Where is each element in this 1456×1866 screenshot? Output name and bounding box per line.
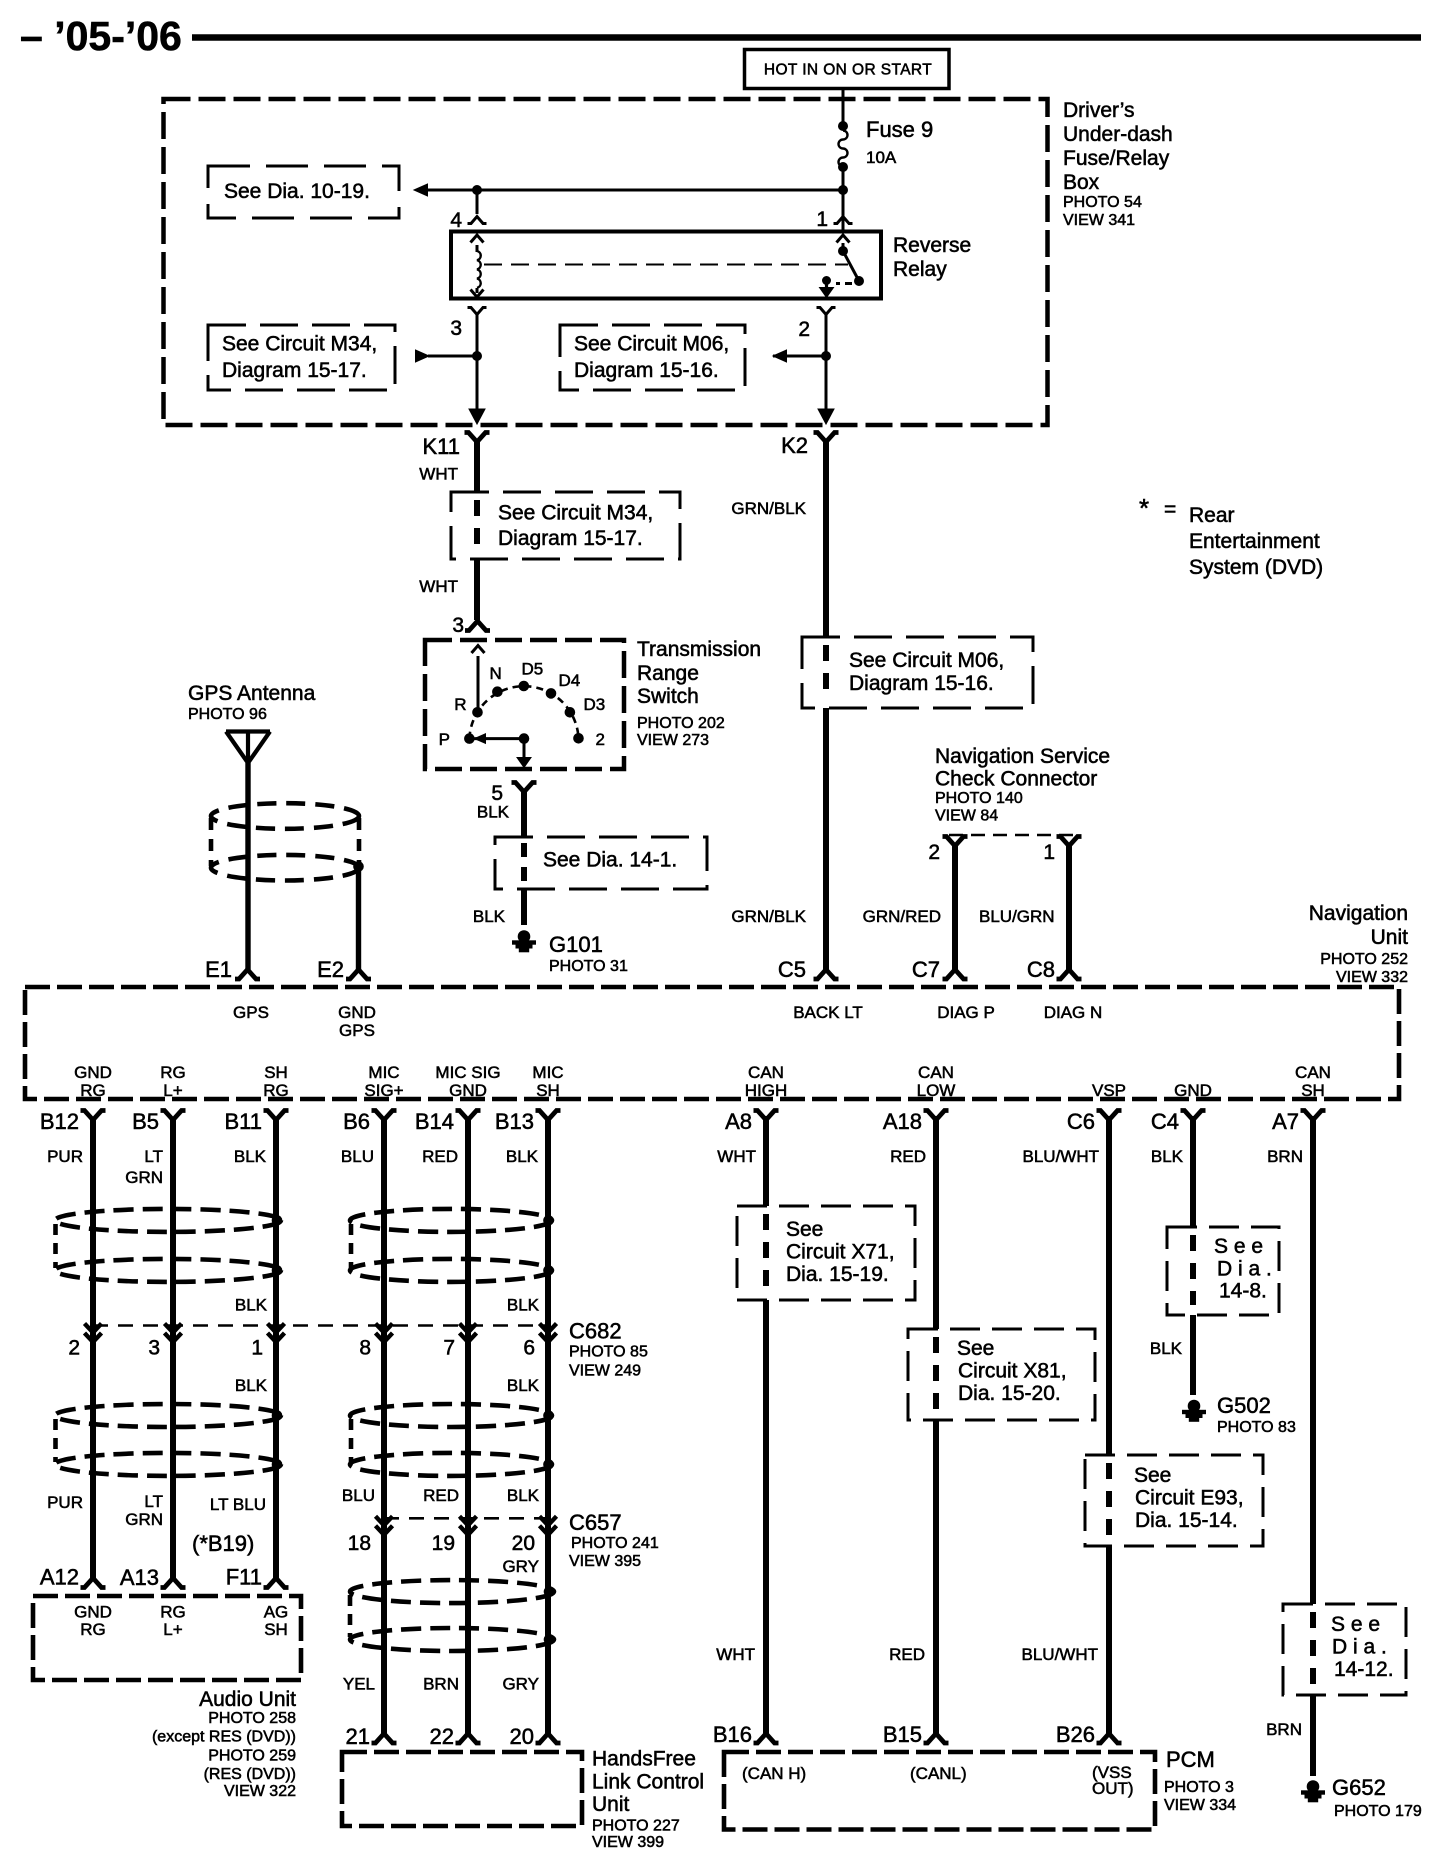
svg-text:C657: C657 bbox=[569, 1510, 622, 1535]
svg-text:GND: GND bbox=[338, 1003, 376, 1022]
connector F11 bbox=[264, 1578, 289, 1588]
svg-text:20: 20 bbox=[512, 1532, 535, 1555]
svg-text:Circuit E93,: Circuit E93, bbox=[1135, 1487, 1244, 1510]
wire dashed through callout bbox=[521, 843, 527, 857]
svg-text:BRN: BRN bbox=[1266, 1720, 1302, 1739]
svg-text:RG: RG bbox=[160, 1603, 186, 1622]
wire C6 BLU/WHT lower bbox=[1106, 1546, 1112, 1734]
svg-text:C4: C4 bbox=[1151, 1109, 1179, 1134]
svg-text:LOW: LOW bbox=[917, 1081, 956, 1100]
svg-text:B5: B5 bbox=[132, 1109, 159, 1134]
wire antenna to E1 bbox=[245, 763, 250, 970]
svg-text:Audio Unit: Audio Unit bbox=[199, 1688, 296, 1711]
svg-text:GRY: GRY bbox=[502, 1557, 539, 1576]
wire B5 LT GRN bbox=[170, 1119, 176, 1578]
connector C682 pin 3 bbox=[165, 1324, 182, 1343]
svg-text:VIEW 322: VIEW 322 bbox=[224, 1783, 296, 1800]
svg-text:F11: F11 bbox=[226, 1565, 262, 1590]
wire branch to See Dia. 10-19 bbox=[428, 189, 843, 192]
svg-text:DIAG P: DIAG P bbox=[937, 1003, 995, 1022]
node shield2 to B13 lower bbox=[544, 1460, 554, 1470]
svg-text:B11: B11 bbox=[224, 1109, 262, 1134]
svg-text:Under-dash: Under-dash bbox=[1063, 123, 1173, 146]
svg-text:VIEW 332: VIEW 332 bbox=[1336, 969, 1408, 986]
node M06 tap bbox=[822, 352, 831, 361]
contact N bbox=[493, 687, 503, 697]
wire dashed through callout bbox=[474, 500, 480, 516]
GPS antenna symbol bbox=[226, 729, 270, 733]
wire B14 RED bbox=[465, 1119, 471, 1734]
connector C682 pin 8 bbox=[376, 1324, 393, 1343]
svg-text:GRN: GRN bbox=[125, 1510, 163, 1529]
svg-text:14-8.: 14-8. bbox=[1219, 1280, 1267, 1303]
svg-text:SH: SH bbox=[264, 1620, 288, 1639]
svg-text:RG: RG bbox=[160, 1063, 186, 1082]
svg-text:PUR: PUR bbox=[47, 1147, 83, 1166]
svg-text:(CANL): (CANL) bbox=[910, 1764, 967, 1783]
svg-text:– ’05-’06: – ’05-’06 bbox=[20, 13, 182, 59]
svg-text:PHOTO 54: PHOTO 54 bbox=[1063, 194, 1142, 211]
svg-text:A12: A12 bbox=[40, 1565, 79, 1590]
svg-text:VIEW 249: VIEW 249 bbox=[569, 1363, 641, 1380]
node fuse/branch junction bbox=[839, 186, 848, 195]
pin 4 connector bbox=[468, 217, 487, 224]
svg-text:MIC: MIC bbox=[368, 1063, 399, 1082]
connector B13 bbox=[536, 1111, 561, 1121]
svg-text:Transmission: Transmission bbox=[637, 638, 761, 661]
selector arc bbox=[469, 686, 578, 738]
svg-text:2: 2 bbox=[596, 730, 605, 749]
callout See Dia. 14-12 bbox=[1283, 1604, 1406, 1695]
svg-text:A18: A18 bbox=[883, 1109, 922, 1134]
svg-text:Navigation: Navigation bbox=[1309, 902, 1408, 925]
svg-text:1: 1 bbox=[816, 208, 828, 231]
svg-text:BLK: BLK bbox=[507, 1376, 540, 1395]
svg-text:BLK: BLK bbox=[1150, 1339, 1183, 1358]
svg-text:3: 3 bbox=[452, 614, 464, 637]
svg-text:7: 7 bbox=[443, 1337, 455, 1360]
svg-text:L+: L+ bbox=[163, 1620, 182, 1639]
svg-text:21: 21 bbox=[346, 1724, 370, 1749]
callout See Circuit M06 upper bbox=[560, 325, 745, 390]
connector C657 pin 20 bbox=[540, 1516, 557, 1535]
svg-text:PCM: PCM bbox=[1166, 1747, 1215, 1772]
callout See Dia. 14-1 bbox=[495, 837, 707, 889]
svg-text:GRN: GRN bbox=[125, 1168, 163, 1187]
svg-text:(CAN H): (CAN H) bbox=[742, 1764, 806, 1783]
shield around RG wires (lower) bbox=[55, 1404, 281, 1427]
wire 5 BLK upper bbox=[521, 791, 527, 837]
wire K11 WHT lower bbox=[474, 559, 480, 620]
callout See Circuit E93 bbox=[1085, 1455, 1263, 1546]
svg-text:10A: 10A bbox=[866, 148, 897, 167]
node shield2 to B11 lower bbox=[272, 1460, 282, 1470]
arrow wire exits fuse box (K2) bbox=[818, 409, 834, 424]
svg-text:PHOTO 140: PHOTO 140 bbox=[935, 790, 1023, 807]
callout See Dia. 14-8 bbox=[1167, 1227, 1279, 1315]
svg-text:BLU/GRN: BLU/GRN bbox=[979, 907, 1055, 926]
svg-text:Unit: Unit bbox=[1371, 926, 1409, 949]
svg-text:Reverse: Reverse bbox=[893, 234, 971, 257]
connector A13 bbox=[161, 1578, 186, 1588]
svg-text:Range: Range bbox=[637, 662, 699, 685]
svg-text:GRY: GRY bbox=[502, 1675, 539, 1694]
svg-text:PHOTO 96: PHOTO 96 bbox=[188, 706, 267, 723]
svg-text:BLU: BLU bbox=[341, 1147, 374, 1166]
wiper arrow to pin 3 bbox=[472, 646, 485, 654]
svg-text:CAN: CAN bbox=[748, 1063, 784, 1082]
connector E2 bbox=[346, 970, 371, 980]
connector B11 bbox=[264, 1111, 289, 1121]
svg-text:Circuit X71,: Circuit X71, bbox=[786, 1241, 895, 1264]
svg-text:OUT): OUT) bbox=[1092, 1779, 1134, 1798]
shield around GPS coax bbox=[211, 803, 359, 829]
svg-text:RG: RG bbox=[80, 1081, 106, 1100]
wire fuse to relay pin 1 bbox=[842, 171, 845, 231]
wire B11 BLK shield bbox=[273, 1119, 279, 1578]
svg-text:HOT IN ON OR START: HOT IN ON OR START bbox=[764, 62, 932, 79]
svg-text:C8: C8 bbox=[1027, 957, 1055, 982]
connector C682 pin 2 bbox=[85, 1324, 102, 1343]
svg-text:GPS Antenna: GPS Antenna bbox=[188, 682, 316, 705]
connector B12 bbox=[81, 1111, 106, 1121]
svg-text:HIGH: HIGH bbox=[745, 1081, 788, 1100]
wire A7 BRN lower bbox=[1310, 1695, 1316, 1776]
svg-text:BLU/WHT: BLU/WHT bbox=[1023, 1147, 1100, 1166]
connector B14 bbox=[456, 1111, 481, 1121]
pin 1 connector bbox=[834, 217, 853, 224]
svg-text:BLK: BLK bbox=[235, 1376, 268, 1395]
svg-text:Fuse/Relay: Fuse/Relay bbox=[1063, 147, 1170, 170]
svg-text:See Circuit M34,: See Circuit M34, bbox=[498, 502, 653, 525]
svg-text:PHOTO 3: PHOTO 3 bbox=[1164, 1779, 1234, 1796]
svg-text:S e e: S e e bbox=[1331, 1613, 1380, 1636]
svg-text:RED: RED bbox=[890, 1147, 926, 1166]
wire BLU/GRN pin1 to C8 bbox=[1066, 845, 1072, 970]
svg-text:19: 19 bbox=[432, 1532, 455, 1555]
svg-text:VIEW 341: VIEW 341 bbox=[1063, 212, 1135, 229]
svg-text:B12: B12 bbox=[40, 1109, 79, 1134]
svg-text:BLK: BLK bbox=[1151, 1147, 1184, 1166]
svg-text:*: * bbox=[1139, 493, 1149, 523]
svg-text:A8: A8 bbox=[725, 1109, 752, 1134]
svg-text:See Dia. 14-1.: See Dia. 14-1. bbox=[543, 849, 677, 872]
callout See Circuit X81 bbox=[908, 1329, 1095, 1420]
svg-text:BLK: BLK bbox=[477, 803, 510, 822]
svg-text:GPS: GPS bbox=[339, 1021, 375, 1040]
svg-text:Circuit X81,: Circuit X81, bbox=[958, 1360, 1067, 1383]
node M34 tap bbox=[473, 352, 482, 361]
svg-text:GND: GND bbox=[74, 1603, 112, 1622]
contact R bbox=[473, 708, 483, 718]
svg-text:See: See bbox=[786, 1218, 823, 1241]
svg-text:Dia. 15-14.: Dia. 15-14. bbox=[1135, 1509, 1238, 1532]
svg-text:Link Control: Link Control bbox=[592, 1771, 704, 1794]
svg-text:B14: B14 bbox=[415, 1109, 454, 1134]
svg-text:4: 4 bbox=[450, 209, 462, 232]
connector A18 bbox=[924, 1111, 949, 1121]
wire dashed through 14-8 callout bbox=[1190, 1235, 1196, 1251]
svg-text:MIC: MIC bbox=[532, 1063, 563, 1082]
svg-text:E2: E2 bbox=[317, 957, 344, 982]
relay box bbox=[451, 232, 881, 299]
wire dashed through E93 callout bbox=[1106, 1463, 1112, 1479]
svg-text:1: 1 bbox=[1043, 841, 1055, 864]
connector B16 bbox=[754, 1734, 779, 1744]
transmission range switch box bbox=[425, 640, 624, 769]
svg-text:Rear: Rear bbox=[1189, 504, 1235, 527]
svg-text:GRN/RED: GRN/RED bbox=[863, 907, 941, 926]
svg-text:VIEW 395: VIEW 395 bbox=[569, 1553, 641, 1570]
service connector link bbox=[949, 834, 1075, 837]
ground G502 bbox=[1183, 1400, 1206, 1421]
svg-text:B13: B13 bbox=[495, 1109, 534, 1134]
svg-text:20: 20 bbox=[510, 1724, 534, 1749]
svg-text:WHT: WHT bbox=[717, 1147, 756, 1166]
wire A18 RED upper bbox=[933, 1116, 939, 1329]
svg-text:See: See bbox=[1134, 1464, 1171, 1487]
svg-text:B16: B16 bbox=[713, 1722, 752, 1747]
svg-text:Dia. 15-19.: Dia. 15-19. bbox=[786, 1263, 889, 1286]
wire pin 2 down bbox=[825, 315, 828, 412]
svg-text:Navigation Service: Navigation Service bbox=[935, 745, 1110, 768]
fuse F9 10A bbox=[839, 122, 848, 131]
svg-text:GND: GND bbox=[1174, 1081, 1212, 1100]
connector C4 bbox=[1181, 1111, 1206, 1121]
connector C657 pin 19 bbox=[460, 1516, 477, 1535]
svg-text:CAN: CAN bbox=[1295, 1063, 1331, 1082]
svg-text:Switch: Switch bbox=[637, 685, 699, 708]
svg-text:RG: RG bbox=[263, 1081, 289, 1100]
svg-text:18: 18 bbox=[348, 1532, 371, 1555]
svg-text:A7: A7 bbox=[1272, 1109, 1299, 1134]
svg-text:BRN: BRN bbox=[1267, 1147, 1303, 1166]
svg-text:GRN/BLK: GRN/BLK bbox=[731, 907, 806, 926]
wire A8 WHT upper bbox=[763, 1116, 769, 1206]
connector C657 link bbox=[384, 1517, 548, 1520]
svg-text:SH: SH bbox=[1301, 1081, 1325, 1100]
svg-text:C5: C5 bbox=[778, 957, 806, 982]
contact D4 bbox=[546, 689, 556, 699]
title rule bbox=[192, 34, 1421, 41]
svg-text:See: See bbox=[957, 1337, 994, 1360]
pin 3 connector bbox=[468, 308, 487, 315]
wire branch down to relay pin 4 bbox=[476, 190, 479, 214]
wire GRN/RED pin2 to C7 bbox=[952, 845, 958, 970]
navigation unit box (dashed) bbox=[25, 987, 1399, 1099]
svg-text:3: 3 bbox=[450, 317, 462, 340]
connector handsfree pin 22 bbox=[456, 1734, 481, 1744]
svg-text:GRN/BLK: GRN/BLK bbox=[731, 499, 806, 518]
wire B13 BLK shield bbox=[545, 1119, 551, 1734]
ground G101 bbox=[513, 931, 536, 952]
svg-text:22: 22 bbox=[430, 1724, 454, 1749]
wire 5 BLK lower bbox=[521, 889, 527, 925]
contact 2 bbox=[574, 734, 584, 744]
wire HOT to fuse bbox=[842, 89, 845, 123]
node shield3 lower bbox=[544, 1635, 554, 1645]
svg-text:(except RES (DVD)): (except RES (DVD)) bbox=[152, 1729, 296, 1746]
connector handsfree pin 21 bbox=[372, 1734, 397, 1744]
svg-text:VIEW 399: VIEW 399 bbox=[592, 1834, 664, 1851]
svg-text:D i a .: D i a . bbox=[1332, 1636, 1387, 1659]
node shield to B13 upper bbox=[544, 1216, 554, 1226]
svg-text:C682: C682 bbox=[569, 1319, 622, 1344]
svg-text:VSP: VSP bbox=[1092, 1081, 1126, 1100]
svg-text:BLU: BLU bbox=[342, 1486, 375, 1505]
svg-text:D5: D5 bbox=[522, 660, 544, 679]
svg-text:SH: SH bbox=[264, 1063, 288, 1082]
arrow wire exits fuse box (K11) bbox=[469, 409, 485, 424]
wire A8 WHT lower bbox=[763, 1300, 769, 1734]
relay internal dashed link bbox=[484, 264, 848, 266]
svg-text:BLK: BLK bbox=[473, 907, 506, 926]
svg-text:RED: RED bbox=[889, 1645, 925, 1664]
contact P bbox=[465, 734, 475, 744]
svg-text:C7: C7 bbox=[912, 957, 940, 982]
svg-text:D4: D4 bbox=[559, 671, 581, 690]
wire shield drain to E2 bbox=[356, 867, 361, 970]
arrow M34 to wire bbox=[416, 350, 430, 362]
svg-text:DIAG N: DIAG N bbox=[1044, 1003, 1103, 1022]
svg-text:PHOTO 258: PHOTO 258 bbox=[208, 1710, 296, 1727]
wire A18 RED lower bbox=[933, 1420, 939, 1734]
svg-text:WHT: WHT bbox=[716, 1645, 755, 1664]
svg-text:PHOTO 202: PHOTO 202 bbox=[637, 715, 725, 732]
connector A7 bbox=[1301, 1111, 1326, 1121]
power tag HOT IN ON OR START bbox=[745, 50, 950, 89]
svg-text:PHOTO 241: PHOTO 241 bbox=[571, 1535, 659, 1552]
svg-text:YEL: YEL bbox=[343, 1675, 375, 1694]
svg-text:SH: SH bbox=[536, 1081, 560, 1100]
svg-text:BLK: BLK bbox=[506, 1147, 539, 1166]
svg-text:G502: G502 bbox=[1217, 1393, 1271, 1418]
svg-text:LT: LT bbox=[144, 1147, 163, 1166]
shield around RG wires (upper) bbox=[55, 1209, 281, 1232]
connector C8 bbox=[1057, 970, 1082, 980]
svg-text:RED: RED bbox=[422, 1147, 458, 1166]
svg-text:MIC SIG: MIC SIG bbox=[435, 1063, 500, 1082]
svg-text:LT BLU: LT BLU bbox=[210, 1495, 266, 1514]
connector C7 bbox=[943, 970, 968, 980]
svg-text:N: N bbox=[490, 664, 502, 683]
svg-text:System (DVD): System (DVD) bbox=[1189, 556, 1323, 579]
ground G652 bbox=[1302, 1781, 1325, 1802]
arrow M06 to wire bbox=[773, 350, 787, 362]
svg-text:Diagram 15-16.: Diagram 15-16. bbox=[849, 672, 994, 695]
fuse/relay box (dashed) bbox=[164, 99, 1048, 425]
wire dashed through X81 callout bbox=[933, 1337, 939, 1353]
svg-text:PHOTO 31: PHOTO 31 bbox=[549, 958, 628, 975]
svg-text:PHOTO 252: PHOTO 252 bbox=[1320, 951, 1408, 968]
connector B5 bbox=[161, 1111, 186, 1121]
node shield to B11 lower bbox=[272, 1266, 282, 1276]
relay switch (pins 1-2) bbox=[837, 235, 850, 243]
svg-text:R: R bbox=[454, 695, 466, 714]
svg-text:E1: E1 bbox=[205, 957, 232, 982]
svg-text:B15: B15 bbox=[883, 1722, 922, 1747]
node shield drain bbox=[354, 862, 364, 872]
handsfree link control unit box (dashed) bbox=[342, 1752, 582, 1826]
pin 1 connector bbox=[1057, 837, 1082, 847]
wire B6 BLU bbox=[381, 1119, 387, 1734]
shield around handsfree wires bbox=[350, 1580, 554, 1603]
svg-text:1: 1 bbox=[251, 1337, 263, 1360]
svg-text:2: 2 bbox=[798, 318, 810, 341]
wire dashed through X71 callout bbox=[763, 1214, 769, 1230]
svg-text:Entertainment: Entertainment bbox=[1189, 530, 1320, 553]
connector K2 bbox=[814, 433, 839, 443]
svg-text:VIEW 273: VIEW 273 bbox=[637, 732, 709, 749]
svg-text:PHOTO 179: PHOTO 179 bbox=[1334, 1803, 1422, 1820]
connector C6 bbox=[1097, 1111, 1122, 1121]
svg-text:GND: GND bbox=[74, 1063, 112, 1082]
svg-text:PHOTO 259: PHOTO 259 bbox=[208, 1747, 296, 1764]
callout See Dia. 10-19 bbox=[208, 166, 399, 218]
svg-text:K11: K11 bbox=[422, 434, 460, 459]
svg-text:(*B19): (*B19) bbox=[192, 1531, 254, 1556]
contact D3 bbox=[565, 708, 575, 718]
svg-text:See Circuit M06,: See Circuit M06, bbox=[574, 333, 729, 356]
svg-text:See Dia. 10-19.: See Dia. 10-19. bbox=[224, 180, 370, 203]
svg-text:B6: B6 bbox=[343, 1109, 370, 1134]
pin 2 connector bbox=[817, 308, 836, 315]
connector K11 bbox=[465, 433, 490, 443]
wire A7 BRN upper bbox=[1310, 1116, 1316, 1604]
node shield2 to B11 upper bbox=[272, 1411, 282, 1421]
svg-text:Diagram 15-16.: Diagram 15-16. bbox=[574, 359, 719, 382]
connector B6 bbox=[372, 1111, 397, 1121]
svg-text:14-12.: 14-12. bbox=[1334, 1658, 1394, 1681]
connector B26 bbox=[1097, 1734, 1122, 1744]
PCM box (dashed) bbox=[724, 1752, 1155, 1830]
wiper to P and out pin 5 bbox=[475, 734, 486, 744]
svg-text:LT: LT bbox=[144, 1492, 163, 1511]
node shield2 to B13 upper bbox=[544, 1411, 554, 1421]
svg-text:HandsFree: HandsFree bbox=[592, 1748, 696, 1771]
svg-text:GND: GND bbox=[449, 1081, 487, 1100]
svg-text:6: 6 bbox=[523, 1337, 535, 1360]
node branch to pin 4 bbox=[473, 186, 482, 195]
svg-text:BRN: BRN bbox=[423, 1675, 459, 1694]
relay coil (pins 4-3) bbox=[471, 235, 484, 243]
node shield to B13 lower bbox=[544, 1266, 554, 1276]
wire pin 3 down bbox=[476, 315, 479, 412]
svg-text:Check Connector: Check Connector bbox=[935, 768, 1097, 791]
callout See Circuit M34 upper bbox=[208, 325, 395, 390]
wire C4 BLK upper bbox=[1190, 1116, 1196, 1227]
svg-text:Box: Box bbox=[1063, 171, 1100, 194]
svg-text:3: 3 bbox=[148, 1337, 160, 1360]
connector C682 pin 7 bbox=[460, 1324, 477, 1343]
svg-text:AG: AG bbox=[264, 1603, 289, 1622]
pin 5 connector bbox=[512, 783, 537, 793]
svg-text:RED: RED bbox=[423, 1486, 459, 1505]
svg-text:BLK: BLK bbox=[507, 1296, 540, 1315]
connector C682 pin 1 bbox=[268, 1324, 285, 1343]
pin 2 connector bbox=[943, 837, 968, 847]
svg-text:S e e: S e e bbox=[1214, 1235, 1263, 1258]
svg-text:C6: C6 bbox=[1067, 1109, 1095, 1134]
svg-text:P: P bbox=[439, 730, 450, 749]
svg-text:=: = bbox=[1164, 498, 1176, 521]
callout See Circuit M06 on K2 wire bbox=[802, 637, 1033, 708]
svg-text:K2: K2 bbox=[781, 433, 808, 458]
wire C4 BLK lower bbox=[1190, 1315, 1196, 1395]
svg-text:PUR: PUR bbox=[47, 1493, 83, 1512]
svg-text:VIEW 84: VIEW 84 bbox=[935, 808, 998, 825]
svg-text:G652: G652 bbox=[1332, 1775, 1386, 1800]
